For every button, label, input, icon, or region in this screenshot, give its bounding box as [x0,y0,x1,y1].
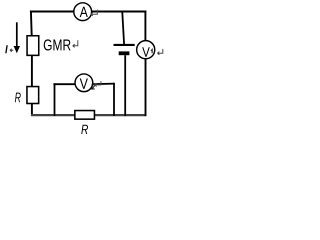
wire right rail lower [145,59,147,116]
return mark after V1 [157,49,162,55]
wire left rail middle [31,56,33,87]
return mark after I [10,49,13,52]
return mark after GMR [73,40,78,47]
voltmeter V1 subscript 1 [151,50,152,54]
wire bottom [31,114,146,116]
wire left rail upper [30,11,33,36]
battery short thick plate [119,51,130,55]
ammeter A circle [74,3,92,21]
label R left [15,93,21,103]
wire right rail upper [144,11,146,41]
voltmeter V2 subscript 2 [92,84,95,89]
return mark after A [91,10,98,16]
return mark after V2 [95,81,101,86]
label R bottom [81,125,88,134]
voltmeter V2 circle [75,74,93,92]
label GMR [44,39,71,50]
wire top left segment [30,11,74,13]
wire battery branch upper (slightly sloped) [122,11,124,45]
wire V2 left horizontal [53,83,75,85]
wire V2 right vertical [113,83,115,116]
wire battery branch lower [124,55,126,116]
current direction arrow I [14,22,20,53]
wire V2 right horizontal [93,83,115,86]
voltmeter V1 circle [137,41,155,59]
label I [5,45,8,53]
resistor GMR box [27,36,39,56]
wire top right segment [92,11,147,13]
wire V2 left vertical [54,83,56,116]
ammeter A letter [80,7,88,17]
resistor R bottom box [75,111,95,120]
wire left rail lower [31,104,33,116]
voltmeter V1 letter [142,47,150,57]
voltmeter V2 letter [80,79,88,89]
resistor R left box [27,87,39,104]
battery long plate [114,44,135,46]
